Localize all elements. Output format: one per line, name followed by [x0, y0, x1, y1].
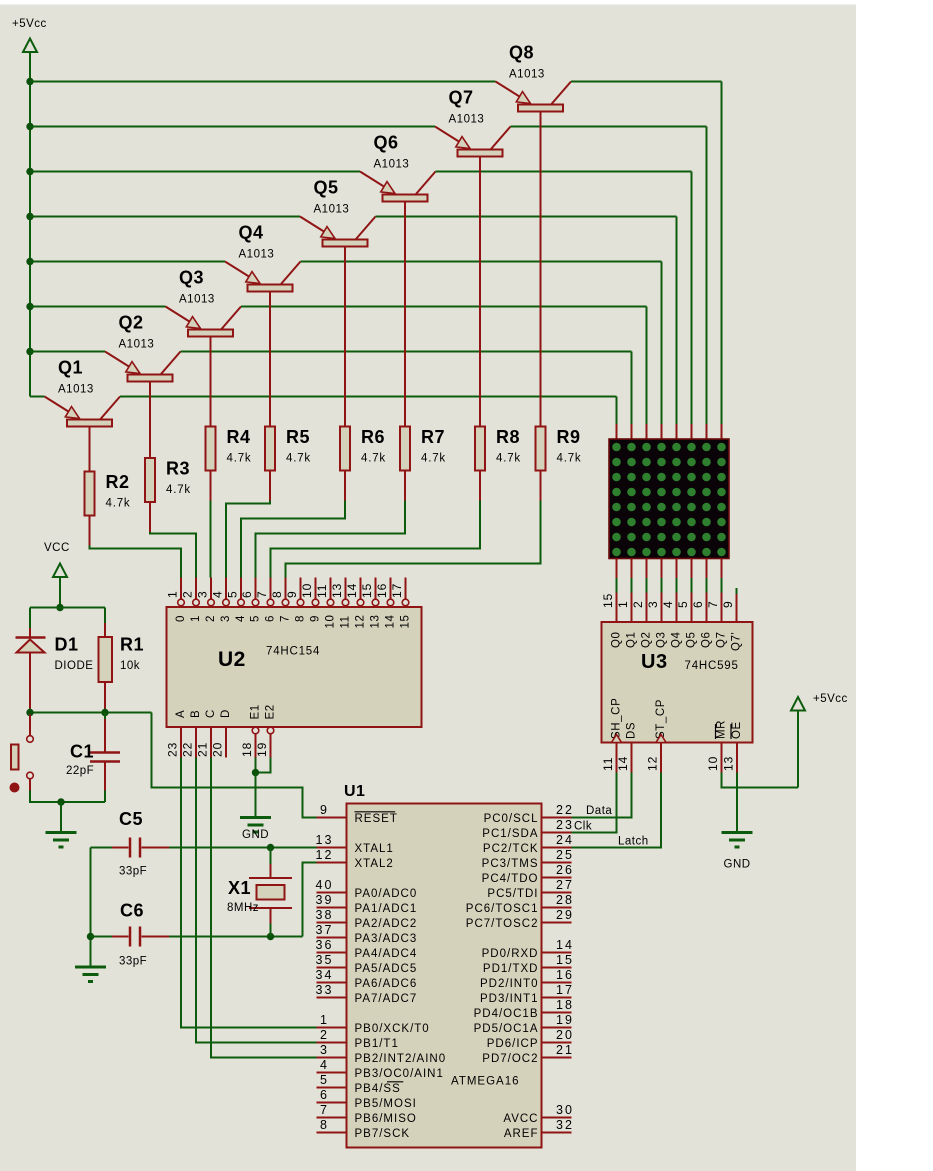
U3 pin 7 Q7 label	[706, 600, 728, 648]
U1 pin 34 PA6/ADC6	[316, 968, 418, 990]
svg-text:1: 1	[190, 615, 202, 622]
svg-text:1: 1	[616, 600, 630, 608]
svg-text:14: 14	[556, 938, 574, 952]
matrix bottom pin 2 to U3	[631, 559, 633, 623]
svg-text:13: 13	[330, 583, 344, 598]
U1 pin 27 PC5/TDI	[487, 878, 574, 900]
svg-text:D1: D1	[55, 635, 79, 655]
U2 output pin 15 (O13)	[360, 578, 382, 629]
svg-text:4.7k: 4.7k	[166, 484, 191, 496]
junction C6 left	[87, 933, 94, 940]
U1 pin 1 PB0/XCK/T0	[317, 1013, 430, 1035]
U1 pin 26 PC4/TDO	[482, 863, 574, 885]
power symbol +5Vcc (top left)	[12, 18, 47, 52]
wire Q6 collector to matrix column 6	[436, 172, 692, 425]
svg-text:9: 9	[320, 803, 329, 817]
U1 pin 39 PA1/ADC1	[316, 893, 418, 915]
decoder U2 74HC154 body	[167, 607, 422, 727]
svg-text:13: 13	[722, 756, 736, 771]
wire R5 to U2 pin 4	[226, 471, 270, 578]
svg-text:19: 19	[255, 742, 269, 757]
svg-text:D: D	[220, 709, 232, 718]
transistor Q4	[225, 223, 301, 427]
wire +5V rail to Q2 emitter	[30, 351, 105, 353]
svg-text:13: 13	[316, 833, 334, 847]
U1 pin 6 PB5/MOSI	[317, 1088, 417, 1110]
svg-text:Clk: Clk	[574, 821, 592, 833]
resistor R5	[265, 427, 311, 471]
svg-text:R6: R6	[361, 427, 385, 447]
svg-text:7: 7	[706, 600, 720, 608]
resistor R4	[206, 427, 252, 471]
wire reset node to U1 RESET	[152, 713, 317, 818]
wire XTAL1 line	[91, 847, 317, 849]
U2 input pin 22 (B)	[181, 710, 203, 758]
U2 output pin 17 (O15)	[390, 578, 412, 629]
wire Latch PC2 to U3 ST_CP	[572, 773, 662, 848]
svg-text:15: 15	[601, 593, 615, 608]
U2 output pin 3 (O2)	[196, 578, 218, 623]
transistor Q3	[166, 268, 242, 427]
U3 pin 6 Q6 label	[691, 600, 713, 648]
svg-text:+5Vcc: +5Vcc	[12, 18, 47, 30]
junction X1 top	[267, 844, 274, 851]
junction +5V rail / Q7 emitter	[26, 123, 33, 130]
U1 pin 21 PD7/OC2	[482, 1043, 574, 1065]
svg-text:AVCC: AVCC	[503, 1113, 538, 1125]
transistor Q6	[360, 133, 436, 427]
U1 pin 5 PB4/SS	[317, 1073, 404, 1095]
svg-text:A1013: A1013	[509, 69, 545, 81]
svg-text:C: C	[205, 709, 217, 718]
U3 pin 13 OE	[722, 721, 744, 772]
svg-text:5: 5	[320, 1073, 329, 1087]
wire +5Vcc stem (right)	[797, 711, 799, 788]
svg-text:40: 40	[316, 878, 334, 892]
wire R7 to U2 pin 6	[256, 471, 406, 578]
svg-text:38: 38	[316, 908, 334, 922]
svg-text:11: 11	[601, 757, 615, 771]
U1 pin 24 PC2/TCK	[483, 833, 574, 855]
svg-text:AREF: AREF	[504, 1128, 539, 1140]
svg-text:29: 29	[556, 908, 574, 922]
svg-text:PC7/TOSC2: PC7/TOSC2	[466, 918, 539, 930]
svg-text:PA1/ADC1: PA1/ADC1	[355, 903, 418, 915]
net label Clk	[574, 821, 592, 833]
wire Q5 collector to matrix column 5	[376, 217, 677, 425]
svg-text:2: 2	[631, 600, 645, 608]
svg-text:7: 7	[320, 1103, 329, 1117]
U1 pin 14 PD0/RXD	[482, 938, 574, 960]
U2 output pin 11 (O10)	[315, 578, 337, 629]
resistor R1	[99, 635, 145, 683]
junction +5V rail / Q8 emitter	[26, 78, 33, 85]
svg-text:1: 1	[166, 590, 180, 598]
U1 pin 36 PA4/ADC4	[316, 938, 418, 960]
svg-text:R3: R3	[166, 459, 190, 479]
svg-text:74HC154: 74HC154	[266, 646, 320, 658]
svg-text:11: 11	[315, 584, 329, 598]
svg-text:PB0/XCK/T0: PB0/XCK/T0	[355, 1023, 430, 1035]
wire +5V rail to Q3 emitter	[30, 306, 166, 308]
svg-text:C5: C5	[119, 809, 143, 829]
svg-text:PA4/ADC4: PA4/ADC4	[355, 948, 418, 960]
svg-text:12: 12	[646, 756, 660, 771]
svg-text:15: 15	[400, 615, 412, 629]
U1 pin 20 PD6/ICP	[487, 1028, 574, 1050]
svg-text:18: 18	[240, 742, 254, 757]
matrix bottom pin 4 to U3	[661, 559, 663, 623]
svg-text:Q7: Q7	[716, 631, 728, 648]
wire VCC rail to D1	[29, 608, 31, 638]
wire R3 to U2 pin 2	[150, 502, 196, 578]
svg-text:PB2/INT2/AIN0: PB2/INT2/AIN0	[355, 1053, 447, 1065]
wire Q2 collector to matrix column 2	[181, 352, 632, 425]
svg-text:OE: OE	[731, 721, 743, 739]
junction ground tap	[57, 798, 64, 805]
svg-text:6: 6	[320, 1088, 329, 1102]
transistor Q8	[496, 43, 572, 427]
svg-text:2: 2	[205, 615, 217, 622]
wire Q3 collector to matrix column 3	[241, 307, 647, 425]
svg-text:23: 23	[556, 818, 574, 832]
wire +5V rail to Q4 emitter	[30, 261, 225, 263]
U1 pin 29 PC7/TOSC2	[466, 908, 574, 930]
svg-text:R9: R9	[557, 427, 581, 447]
matrix top pin 5	[676, 424, 678, 439]
svg-text:A1013: A1013	[179, 294, 215, 306]
U1 pin 16 PD2/INT0	[480, 968, 574, 990]
svg-text:PD4/OC1B: PD4/OC1B	[474, 1008, 539, 1020]
svg-text:39: 39	[316, 893, 334, 907]
svg-text:A1013: A1013	[239, 249, 275, 261]
wire R8 to U2 pin 7	[271, 471, 481, 578]
matrix bottom pin 3 to U3	[646, 559, 648, 623]
U1 pin 38 PA2/ADC2	[316, 908, 418, 930]
capacitor C5	[112, 809, 169, 878]
U2 output pin 6 (O5)	[240, 578, 262, 623]
ground (U3 OE)	[722, 833, 753, 871]
wire R1 to bottom rail	[104, 682, 106, 713]
svg-text:21: 21	[196, 742, 210, 757]
ground (U2 enables)	[240, 818, 271, 842]
resistor R6	[340, 427, 386, 471]
svg-text:ATMEGA16: ATMEGA16	[451, 1076, 520, 1088]
svg-text:24: 24	[556, 833, 574, 847]
U2 output pin 4 (O3)	[211, 578, 233, 623]
svg-text:DIODE: DIODE	[55, 660, 94, 672]
U2 output pin 10 (O9)	[300, 578, 322, 623]
matrix bottom pin 5 to U3	[676, 559, 678, 623]
matrix top pin 3	[646, 424, 648, 439]
svg-text:11: 11	[340, 615, 352, 628]
svg-text:DS: DS	[626, 722, 638, 739]
svg-text:PC0/SCL: PC0/SCL	[484, 813, 539, 825]
U2 output pin 2 (O1)	[181, 578, 203, 623]
svg-text:Q0: Q0	[611, 631, 623, 648]
wire +5V rail to Q8 emitter	[30, 81, 496, 83]
svg-text:Q4: Q4	[239, 223, 264, 243]
U3 pin 11 SH_CP	[601, 698, 623, 773]
svg-text:Q7': Q7'	[731, 632, 743, 651]
svg-text:Q7: Q7	[449, 88, 474, 108]
svg-text:PD7/OC2: PD7/OC2	[482, 1053, 538, 1065]
svg-text:18: 18	[556, 998, 574, 1012]
svg-text:Q6: Q6	[374, 133, 399, 153]
svg-text:15: 15	[556, 953, 574, 967]
wire R4 to U2 pin 3	[210, 471, 212, 578]
U3 pin 9 Q7'	[721, 588, 743, 651]
svg-text:4: 4	[661, 600, 675, 608]
svg-text:6: 6	[265, 615, 277, 622]
ground (caps)	[75, 967, 106, 982]
svg-text:R5: R5	[286, 427, 310, 447]
svg-text:Q3: Q3	[656, 631, 668, 648]
svg-text:12: 12	[316, 848, 334, 862]
U2 input pin 23 (A)	[166, 710, 188, 758]
svg-text:19: 19	[556, 1013, 574, 1027]
U1 pin 19 PD5/OC1A	[474, 1013, 574, 1035]
svg-text:PA0/ADC0: PA0/ADC0	[355, 888, 418, 900]
wire E1/E2 join	[256, 758, 271, 773]
svg-text:PB5/MOSI: PB5/MOSI	[355, 1098, 417, 1110]
svg-text:8: 8	[320, 1118, 329, 1132]
svg-text:12: 12	[355, 615, 367, 629]
svg-text:XTAL1: XTAL1	[355, 843, 394, 855]
svg-text:32: 32	[556, 1118, 574, 1132]
svg-text:5: 5	[226, 590, 240, 598]
svg-text:PC1/SDA: PC1/SDA	[482, 828, 538, 840]
U1 pin 13 XTAL1	[316, 833, 394, 855]
transistor Q5	[300, 178, 376, 427]
svg-text:15: 15	[360, 583, 374, 598]
U1 pin 23 PC1/SDA	[482, 818, 574, 840]
svg-text:17: 17	[390, 583, 404, 598]
svg-text:A: A	[175, 710, 187, 718]
svg-text:Q1: Q1	[626, 631, 638, 648]
U1 pin 2 PB1/T1	[317, 1028, 399, 1050]
svg-text:U2: U2	[218, 648, 246, 671]
svg-text:5: 5	[676, 600, 690, 608]
svg-text:X1: X1	[228, 878, 251, 898]
wire R2 to U2 pin 1	[90, 516, 182, 578]
svg-text:3: 3	[646, 600, 660, 608]
svg-text:GND: GND	[242, 829, 269, 841]
svg-text:Q8: Q8	[509, 43, 534, 63]
svg-text:4.7k: 4.7k	[106, 498, 131, 510]
svg-text:Q1: Q1	[58, 358, 83, 378]
svg-text:3: 3	[320, 1043, 329, 1057]
svg-text:Latch: Latch	[618, 836, 649, 848]
svg-text:SH_CP: SH_CP	[611, 698, 623, 739]
svg-text:Q2: Q2	[641, 631, 653, 648]
svg-text:6: 6	[691, 600, 705, 608]
svg-text:10: 10	[300, 583, 314, 598]
U3 pin 4 Q4 label	[661, 600, 683, 648]
svg-text:8: 8	[270, 590, 284, 598]
svg-text:PC3/TMS: PC3/TMS	[482, 858, 539, 870]
svg-text:PC6/TOSC1: PC6/TOSC1	[466, 903, 539, 915]
svg-text:28: 28	[556, 893, 574, 907]
svg-text:4.7k: 4.7k	[557, 453, 582, 465]
svg-text:14: 14	[385, 615, 397, 629]
svg-text:Q5: Q5	[686, 631, 698, 648]
svg-text:2: 2	[181, 590, 195, 598]
wire U3 OE to ground	[736, 773, 738, 833]
svg-text:34: 34	[316, 968, 334, 982]
transistor Q7	[435, 88, 511, 427]
wire VCC top rail	[30, 607, 105, 609]
svg-text:4: 4	[211, 590, 225, 598]
svg-text:22pF: 22pF	[66, 765, 94, 777]
matrix top pin 1	[616, 424, 618, 439]
U1 pin 28 PC6/TOSC1	[466, 893, 574, 915]
junction E1/E2	[252, 769, 259, 776]
svg-text:36: 36	[316, 938, 334, 952]
svg-text:0: 0	[175, 615, 187, 622]
svg-text:Q3: Q3	[179, 268, 204, 288]
svg-text:4: 4	[320, 1058, 329, 1072]
wire Data PC0 to U3 DS	[572, 773, 632, 818]
U1 pin 15 PD1/TXD	[483, 953, 574, 975]
wire VCC rail to R1	[104, 608, 106, 638]
svg-text:4.7k: 4.7k	[227, 453, 252, 465]
wire U2 B to U1 PB1	[196, 758, 317, 1043]
svg-text:Q5: Q5	[314, 178, 339, 198]
junction +5V rail / Q4 emitter	[26, 258, 33, 265]
svg-text:A1013: A1013	[374, 159, 410, 171]
svg-text:33: 33	[316, 983, 334, 997]
svg-text:4: 4	[235, 615, 247, 622]
U1 pin 9 RESET	[317, 803, 398, 825]
svg-text:33pF: 33pF	[119, 956, 147, 968]
LED matrix 8x8	[609, 439, 729, 559]
svg-text:R1: R1	[120, 635, 144, 655]
U1 pin 35 PA5/ADC5	[316, 953, 418, 975]
svg-text:PC4/TDO: PC4/TDO	[482, 873, 539, 885]
power symbol +5Vcc (right)	[791, 693, 848, 711]
svg-text:A1013: A1013	[314, 204, 350, 216]
capacitor C6	[112, 901, 169, 968]
svg-text:30: 30	[556, 1103, 574, 1117]
transistor Q1	[45, 358, 121, 472]
svg-text:R2: R2	[106, 472, 130, 492]
svg-text:PA2/ADC2: PA2/ADC2	[355, 918, 418, 930]
svg-text:U1: U1	[344, 783, 365, 800]
svg-text:PA5/ADC5: PA5/ADC5	[355, 963, 418, 975]
U2 input pin 20 (D)	[211, 709, 233, 757]
push button	[10, 715, 34, 793]
svg-text:VCC: VCC	[44, 542, 70, 554]
wire Q4 collector to matrix column 4	[301, 262, 662, 425]
mcu U1 ATMEGA16 body	[344, 783, 542, 1148]
resistor R8	[475, 427, 521, 471]
svg-text:GND: GND	[724, 859, 751, 871]
svg-text:PD6/ICP: PD6/ICP	[487, 1038, 539, 1050]
svg-text:E2: E2	[265, 704, 277, 719]
svg-text:37: 37	[316, 923, 334, 937]
U1 pin 8 PB7/SCK	[317, 1118, 411, 1140]
svg-text:17: 17	[556, 983, 574, 997]
svg-text:PB1/T1: PB1/T1	[355, 1038, 399, 1050]
U3 pin 3 Q3 label	[646, 600, 668, 648]
U1 pin 4 PB3/OC0/AIN1	[317, 1058, 444, 1080]
wire U2 C to U1 PB2	[211, 758, 317, 1058]
wire reset node rail	[30, 712, 152, 714]
svg-text:21: 21	[556, 1043, 574, 1057]
U1 pin 17 PD3/INT1	[480, 983, 574, 1005]
junction X1 bottom	[267, 933, 274, 940]
U1 pin 18 PD4/OC1B	[474, 998, 574, 1020]
wire +5V rail to Q1 emitter	[30, 396, 45, 398]
wire +5V rail to Q6 emitter	[30, 171, 360, 173]
U2 output pin 13 (O11)	[330, 578, 352, 629]
capacitor C1	[66, 713, 120, 803]
junction VCC stem	[56, 604, 63, 611]
svg-text:16: 16	[556, 968, 574, 982]
U2 output pin 1 (O0)	[166, 578, 188, 623]
svg-text:Q4: Q4	[671, 631, 683, 648]
svg-text:4.7k: 4.7k	[361, 453, 386, 465]
svg-text:A1013: A1013	[119, 339, 155, 351]
ground (button/C1)	[46, 833, 77, 848]
svg-text:PC2/TCK: PC2/TCK	[483, 843, 539, 855]
svg-text:10: 10	[325, 615, 337, 629]
svg-text:10: 10	[706, 756, 720, 771]
svg-text:RESET: RESET	[355, 813, 398, 825]
U3 pin 12 ST_CP	[646, 699, 668, 773]
svg-text:U3: U3	[641, 651, 668, 673]
svg-text:Q2: Q2	[119, 313, 144, 333]
svg-text:3: 3	[196, 590, 210, 598]
svg-text:4.7k: 4.7k	[286, 453, 311, 465]
svg-text:3: 3	[220, 615, 232, 622]
U2 output pin 7 (O6)	[255, 578, 277, 623]
wire Q8 collector to matrix column 8	[571, 82, 722, 425]
U1 pin 12 XTAL2	[316, 848, 394, 870]
resistor R3	[145, 458, 191, 502]
net label Latch	[618, 836, 649, 848]
matrix top pin 4	[661, 424, 663, 439]
svg-text:35: 35	[316, 953, 334, 967]
U3 pin 5 Q5 label	[676, 600, 698, 648]
U3 pin 14 DS	[616, 722, 638, 773]
svg-text:PB4/SS: PB4/SS	[355, 1083, 401, 1095]
svg-text:Data: Data	[586, 805, 612, 817]
resistor R2	[85, 472, 131, 516]
wire +5V rail vertical	[29, 52, 31, 397]
power symbol VCC	[44, 542, 70, 577]
wire U2 A to U1 PB0	[181, 758, 317, 1028]
wire +5V rail to Q7 emitter	[30, 126, 435, 128]
junction +5V rail / Q3 emitter	[26, 303, 33, 310]
svg-text:PD3/INT1: PD3/INT1	[480, 993, 539, 1005]
svg-text:4.7k: 4.7k	[421, 453, 446, 465]
junction D1/button	[26, 709, 33, 716]
matrix top pin 8	[721, 424, 723, 439]
matrix bottom pin 6 to U3	[691, 559, 693, 623]
wire button to ground rail	[30, 791, 105, 803]
svg-text:22: 22	[556, 803, 574, 817]
svg-text:9: 9	[310, 615, 322, 622]
matrix top pin 7	[706, 424, 708, 439]
svg-text:6: 6	[240, 590, 254, 598]
svg-text:R4: R4	[227, 427, 251, 447]
U3 pin 2 Q2 label	[631, 600, 653, 648]
svg-text:23: 23	[166, 742, 180, 757]
svg-text:R8: R8	[496, 427, 520, 447]
svg-text:PB6/MISO: PB6/MISO	[355, 1113, 417, 1125]
